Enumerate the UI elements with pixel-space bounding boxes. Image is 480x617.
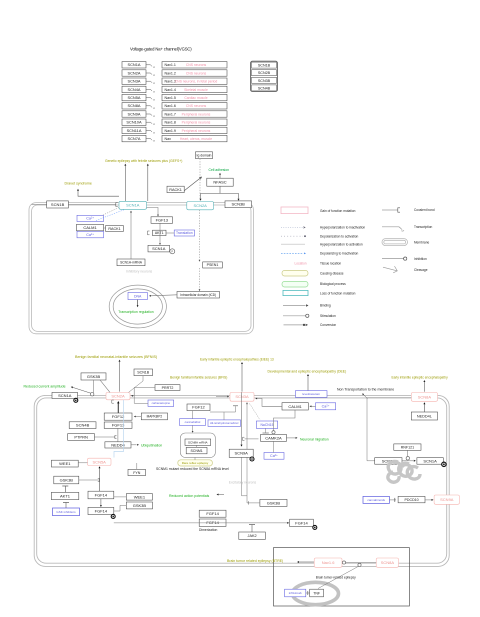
wire GSK3Bd left junction bbox=[258, 502, 260, 504]
svg-text:SCN5A: SCN5A bbox=[93, 459, 107, 464]
svg-text:Nav1.4: Nav1.4 bbox=[165, 88, 176, 92]
svg-text:Intracellular domain (ICD): Intracellular domain (ICD) bbox=[180, 293, 216, 297]
wire arrow SCN2A up to BFNIS bbox=[119, 360, 121, 392]
wire SCN8A-line left loop down to SCN8A protein bbox=[367, 398, 411, 461]
wire Nav1.6 arrow to BTRE label bbox=[297, 561, 314, 563]
wire WEE1 to SCN5A bbox=[78, 462, 87, 464]
VGSC table row SCN2A alpha-subunit box bbox=[122, 70, 146, 76]
svg-text:Heart, uterus, muscle: Heart, uterus, muscle bbox=[180, 137, 212, 141]
svg-text:SCN7A: SCN7A bbox=[128, 136, 141, 141]
box SCN8A (protein, right) bbox=[375, 458, 402, 465]
conversion dot right of FGF14e bbox=[313, 525, 317, 529]
box cannabidiol (drug) bbox=[180, 419, 206, 426]
svg-text:SCN3A: SCN3A bbox=[128, 79, 141, 84]
svg-text:SCN1B: SCN1B bbox=[258, 64, 271, 68]
label Reduced current amplitude bbox=[24, 385, 66, 389]
svg-text:Nav1.6: Nav1.6 bbox=[165, 104, 176, 108]
box cannabinoids (drug) bbox=[363, 496, 389, 503]
wire SCN1B covalent bond to SCN1A bbox=[68, 203, 117, 207]
svg-text:SCN1A: SCN1A bbox=[152, 246, 166, 251]
svg-text:Depolarization to activation: Depolarization to activation bbox=[320, 234, 358, 238]
svg-text:SCN9A: SCN9A bbox=[128, 112, 141, 117]
box GSK3B (d) bbox=[260, 499, 287, 506]
container SCN8A mRNA rounded box bbox=[180, 433, 215, 457]
svg-text:SCN8A: SCN8A bbox=[418, 394, 432, 399]
legend cleavage bbox=[383, 266, 428, 273]
phosphorylation circle P on SCN1A bbox=[170, 249, 175, 254]
svg-text:TNF: TNF bbox=[313, 591, 320, 595]
svg-text:SCN2B: SCN2B bbox=[258, 71, 271, 75]
VGSC table row Nav1.9 description box bbox=[162, 127, 227, 133]
tumor cell ellipse bbox=[293, 582, 339, 604]
wire MAPK8IP2 to FGF12 arrow bbox=[134, 416, 142, 418]
conversion dot at SCN9A corner bbox=[250, 457, 254, 461]
box CALM1 (bottom) bbox=[282, 403, 308, 410]
wire RNF121 down with stimulation circle bbox=[406, 450, 409, 460]
box SCN1A-mRNA bbox=[117, 259, 145, 266]
box SCN1A (middle membrane, loss of function) bbox=[119, 201, 147, 209]
svg-text:SCN2A: SCN2A bbox=[194, 203, 208, 208]
wire PDCD10 arrow to SCN9A bbox=[425, 499, 434, 501]
wire vertical line SCN3A down to SCN9A with arrow bbox=[241, 392, 248, 496]
svg-text:FGF14: FGF14 bbox=[95, 508, 108, 513]
svg-text:SCN2A: SCN2A bbox=[128, 71, 141, 76]
svg-text:GSK3B: GSK3B bbox=[60, 477, 74, 482]
svg-text:FGF14: FGF14 bbox=[295, 520, 308, 525]
wire SCN1A right-bottom elbow to FGF13 bbox=[147, 208, 159, 217]
svg-text:SCN11A: SCN11A bbox=[127, 128, 142, 133]
svg-text:SCN1A: SCN1A bbox=[126, 203, 140, 208]
wire SCN5A down to FGF14a with up arrow bbox=[99, 466, 101, 491]
wire NEDD4 to Ubiquitination arrow bbox=[131, 444, 139, 446]
box FGF13 (left) bbox=[104, 422, 132, 428]
svg-text:Excitatory neurons: Excitatory neurons bbox=[229, 480, 257, 484]
svg-text:levetiracetam: levetiracetam bbox=[302, 392, 320, 396]
svg-text:Ca²⁺: Ca²⁺ bbox=[270, 454, 278, 458]
middle neuron membrane (double rounded rect) bbox=[29, 203, 253, 334]
svg-text:FGF12: FGF12 bbox=[112, 414, 125, 419]
wire FGF13 down to NEDD4 bbox=[117, 428, 119, 441]
box Rare reflex epilepsy (causing disease) bbox=[178, 460, 213, 466]
svg-text:FGF13: FGF13 bbox=[112, 423, 125, 428]
wire SCN1A-mRNA up to SCN1A (translation) bbox=[130, 211, 132, 259]
svg-text:FGF12: FGF12 bbox=[192, 405, 205, 410]
box DNA bbox=[128, 292, 147, 299]
svg-text:CALM1: CALM1 bbox=[288, 404, 302, 409]
wire FYN up bbox=[136, 463, 138, 469]
svg-text:Membrane: Membrane bbox=[414, 240, 429, 244]
svg-text:SCN9A: SCN9A bbox=[440, 497, 454, 502]
box NaCN15 (chemical) bbox=[256, 421, 277, 428]
box AKT1 (lower left) bbox=[51, 492, 79, 499]
box FGF14 (c) bbox=[199, 510, 226, 517]
svg-text:GSK inhibitors: GSK inhibitors bbox=[56, 510, 76, 514]
legend biological process bbox=[282, 281, 346, 287]
VGSC table row SCN3A alpha-subunit box bbox=[122, 78, 146, 84]
svg-text:Ubiquitination: Ubiquitination bbox=[141, 443, 162, 447]
wire FGF12 thick arrow up to SCN2A bbox=[112, 400, 120, 413]
wire carbamazepine to SCN2A elbow bbox=[134, 396, 148, 404]
label Brain tumor-related epilepsy (inner) bbox=[316, 576, 356, 580]
wire SCN11A to Nav1.9 bbox=[146, 130, 155, 134]
svg-text:SCNM1 mutant reduced the SCN8A: SCNM1 mutant reduced the SCN8A mRNA leve… bbox=[156, 467, 229, 471]
wire ICD to DNA arrow bbox=[149, 295, 177, 297]
wire FGF14 down chain arrow bbox=[100, 499, 102, 507]
svg-text:Tyr: Tyr bbox=[401, 229, 404, 232]
wire NFASC split to SCN2A and SCN3B bbox=[200, 186, 240, 201]
svg-text:SCN1B: SCN1B bbox=[51, 202, 65, 207]
svg-text:SCN3B: SCN3B bbox=[258, 79, 271, 83]
wire SCN5A to Nav1.5 bbox=[146, 98, 155, 102]
legend causing disease bbox=[282, 270, 344, 276]
legend inhibition bbox=[382, 257, 427, 261]
VGSC table row SCN10A alpha-subunit box bbox=[122, 119, 146, 125]
box CAMK2A bbox=[261, 434, 287, 441]
svg-text:Ig domain: Ig domain bbox=[197, 153, 212, 157]
svg-text:Cell adhesion: Cell adhesion bbox=[209, 168, 230, 172]
legend depolarizing to inactivation bbox=[281, 252, 358, 256]
VGSC table row Nav1.3 description box bbox=[162, 78, 227, 84]
svg-text:Skeletal muscle: Skeletal muscle bbox=[184, 88, 208, 92]
svg-text:CNS neurons: CNS neurons bbox=[186, 104, 207, 108]
svg-text:Conversion: Conversion bbox=[320, 323, 336, 327]
svg-text:MAPK8IP2: MAPK8IP2 bbox=[147, 415, 163, 419]
box TNF bbox=[310, 589, 324, 597]
VGSC table row SCN11A alpha-subunit box bbox=[122, 127, 146, 133]
wire FGF12 T-bar into SCN3A bottom bbox=[210, 406, 238, 412]
wire Ca2+ to CALM1 arrow bbox=[310, 405, 316, 407]
wire arrow up to DEE bbox=[307, 374, 309, 395]
svg-text:Non Transportation to the memb: Non Transportation to the membrane bbox=[337, 387, 394, 391]
wire NaCN15 inhibition T-bar to CAMK2A bbox=[263, 428, 269, 433]
svg-text:Nax: Nax bbox=[165, 137, 172, 141]
wire cannabidiol down to SCN8A mRNA container bbox=[192, 425, 194, 432]
svg-text:SCN4A: SCN4A bbox=[128, 87, 141, 92]
svg-text:FGF14: FGF14 bbox=[206, 520, 219, 525]
box SCN8A mRNA bbox=[185, 439, 211, 445]
svg-text:Nav1.9: Nav1.9 bbox=[165, 129, 176, 133]
box tetrahydrocannabinol (drug) bbox=[208, 420, 241, 427]
wire SCN3A to Nav1.3 bbox=[146, 81, 155, 85]
box carbamazepine (drug) bbox=[148, 400, 174, 406]
box SCN1B (bottom section) bbox=[134, 369, 153, 376]
box Ca2+ (below CAMK2A) bbox=[264, 453, 284, 460]
box WEE1 (right) bbox=[126, 494, 152, 500]
wire dashed gray SCN1A to Ca2+ bbox=[102, 208, 119, 216]
wire GSK3Bc to FGF14b bbox=[114, 505, 127, 511]
wire dashed blue SCN1A to Ca2+/CALM1 bbox=[96, 210, 124, 221]
VGSC table row Nax description box bbox=[162, 135, 227, 141]
label Dimerization bbox=[199, 528, 217, 532]
svg-text:Nav1.1: Nav1.1 bbox=[165, 63, 176, 67]
svg-text:NaCN15: NaCN15 bbox=[260, 423, 273, 427]
box SCN9A (bottom right, gain of function) bbox=[434, 495, 459, 504]
svg-text:WEE1: WEE1 bbox=[134, 494, 146, 499]
label Cell adhesion bbox=[209, 168, 230, 172]
box Translation (process) bbox=[174, 230, 194, 236]
wire WEE1b to FGF14a bbox=[114, 496, 127, 498]
svg-text:DNA: DNA bbox=[134, 294, 142, 298]
box JAK2 bbox=[239, 532, 265, 539]
svg-text:Early infantile epileptic ence: Early infantile epileptic encephalopathy bbox=[392, 375, 449, 379]
svg-text:Genetic epilepsy with febrile: Genetic epilepsy with febrile seizures p… bbox=[105, 159, 182, 163]
container BTRE box bbox=[274, 548, 410, 606]
conversion dot on SCN1A output bbox=[74, 398, 78, 402]
legend gain of function mutation bbox=[281, 207, 356, 214]
svg-text:Inhibitory neurons: Inhibitory neurons bbox=[126, 269, 153, 273]
box RACK1 (extracellular) bbox=[167, 186, 184, 192]
VGSC table row SCN4A alpha-subunit box bbox=[122, 86, 146, 92]
box PRRT2 bbox=[155, 385, 180, 391]
box FGF13 (middle cell) bbox=[151, 217, 173, 224]
svg-text:FGF13: FGF13 bbox=[156, 218, 169, 223]
box Ca2+ (right of CALM1) bbox=[316, 403, 336, 410]
svg-text:Benign familial infantile seiz: Benign familial infantile seizures (BFIS… bbox=[170, 375, 227, 379]
svg-text:WEE1: WEE1 bbox=[59, 461, 71, 466]
box Ca2+ (lower) bbox=[77, 231, 104, 238]
box FGF12 (under SCN3A) bbox=[187, 404, 210, 411]
wire SCN2A to Nav1.2 bbox=[146, 73, 155, 77]
svg-text:Ca²⁺: Ca²⁺ bbox=[322, 405, 330, 409]
svg-text:PRRT2: PRRT2 bbox=[162, 386, 174, 390]
box FGF14 (e) bbox=[290, 519, 314, 526]
svg-text:Cleavage: Cleavage bbox=[414, 268, 428, 272]
box SCN2A (bottom membrane, gain of function) bbox=[106, 392, 130, 399]
box SCN2A (middle membrane, loss of function) bbox=[187, 202, 214, 210]
svg-text:PTPRN: PTPRN bbox=[74, 434, 88, 439]
VGSC table row SCN8A alpha-subunit box bbox=[122, 103, 146, 109]
svg-text:SCN8A mRNA: SCN8A mRNA bbox=[188, 440, 208, 444]
box FYN bbox=[128, 469, 146, 475]
legend hyperpolarization to inactivation bbox=[281, 226, 365, 230]
svg-text:RACK1: RACK1 bbox=[108, 227, 120, 231]
box Ca2+ (upper) bbox=[77, 215, 104, 221]
VGSC table row Nav1.4 description box bbox=[162, 86, 227, 92]
svg-text:JAK2: JAK2 bbox=[248, 534, 257, 538]
svg-text:SCN9A: SCN9A bbox=[235, 451, 249, 456]
svg-text:AKT1: AKT1 bbox=[60, 493, 71, 498]
svg-text:SCN3B: SCN3B bbox=[232, 202, 246, 207]
svg-text:Transcription: Transcription bbox=[414, 225, 433, 229]
svg-text:GSK3B: GSK3B bbox=[267, 500, 281, 505]
label Reduced action potentials bbox=[169, 494, 210, 498]
nucleus (double ellipse) bbox=[109, 285, 166, 328]
svg-text:Tissue location: Tissue location bbox=[320, 262, 341, 266]
svg-text:Covalent bond: Covalent bond bbox=[414, 208, 435, 212]
wire SCN7A to Nax bbox=[146, 139, 155, 143]
svg-text:RNF121: RNF121 bbox=[401, 445, 414, 449]
wire GSK3B right to SCN5A-FGF14 line bbox=[79, 478, 100, 481]
wire TNF diagonal to membrane circle bbox=[318, 566, 359, 588]
box SCN8A (BTRE, gain of function) bbox=[376, 558, 398, 567]
legend transcription bbox=[382, 225, 433, 232]
legend loss of function mutation bbox=[283, 290, 356, 295]
legend tissue location bbox=[295, 262, 342, 266]
wire PTPRN to ubiquitination line bbox=[94, 436, 116, 439]
wire SCNM1 to rare reflex epilepsy bbox=[194, 457, 196, 459]
svg-text:PDCD10: PDCD10 bbox=[405, 498, 419, 502]
label Transcription regulation bbox=[118, 310, 153, 314]
svg-text:SCN1A: SCN1A bbox=[58, 393, 72, 398]
wire stimulation to reduced current amplitude bbox=[71, 387, 92, 394]
wire NFASC up-arrow to Cell adhesion bbox=[219, 173, 221, 178]
label Dravet syndrome bbox=[65, 181, 92, 185]
box SCN1A (protein, far right) bbox=[417, 458, 443, 465]
svg-text:Reduced action potentials: Reduced action potentials bbox=[169, 494, 210, 498]
wire RACK1 cleavage arrow to Ig-domain line bbox=[185, 177, 202, 190]
svg-text:SCN4B: SCN4B bbox=[76, 423, 90, 428]
svg-text:Nav1.8: Nav1.8 bbox=[165, 121, 176, 125]
label Early infantile epileptic encephalopathy bbox=[392, 375, 449, 379]
wire arrow SCN3A up to EIEE13 bbox=[241, 362, 243, 392]
conversion dot at SCN1A right bbox=[442, 462, 446, 466]
wire SCN1A to Nav1.1 bbox=[146, 65, 155, 69]
svg-text:Brain tumor-related epilepsy: Brain tumor-related epilepsy bbox=[316, 576, 356, 580]
svg-text:GSK3B: GSK3B bbox=[133, 503, 147, 508]
wire dashed Ig domain down through SCN2A to PSEN1 and ICD bbox=[199, 159, 201, 292]
box Nav1.6 (gain of function) bbox=[314, 558, 342, 567]
svg-text:Developmental and epileptic en: Developmental and epileptic encephalopat… bbox=[268, 369, 347, 373]
wire binding junction vertical line to CAMK2A bbox=[243, 437, 259, 440]
svg-text:CALM1: CALM1 bbox=[83, 225, 97, 230]
VGSC table row Nav1.6 description box bbox=[162, 103, 227, 109]
box FGF14 (b) bbox=[88, 507, 114, 514]
box NEDD4 bbox=[105, 442, 131, 448]
svg-text:Brain tumor related epilepsy (: Brain tumor related epilepsy (BTRE) bbox=[227, 559, 283, 563]
box CALM1 (middle) bbox=[77, 224, 104, 231]
legend conversion arrow bbox=[284, 323, 337, 327]
svg-text:Transcription regulation: Transcription regulation bbox=[118, 310, 153, 314]
title Voltage-gated Na+ channel (VGSC) bbox=[130, 47, 192, 52]
wire membrane diag arrow to Non-transportation label bbox=[362, 393, 367, 398]
svg-text:SCN10A: SCN10A bbox=[126, 120, 142, 125]
box GSK inhibitors (drug) bbox=[53, 508, 80, 516]
box PDCD10 bbox=[398, 496, 425, 502]
legend binding arrow bbox=[283, 304, 331, 308]
svg-text:SCNM1: SCNM1 bbox=[190, 449, 202, 453]
box infliximab (drug) bbox=[285, 589, 306, 597]
svg-text:Dimerization: Dimerization bbox=[199, 528, 217, 532]
svg-text:CNS neurons: CNS neurons bbox=[186, 63, 207, 67]
wire SCN8A-mRNA to SCNM1 bbox=[196, 445, 198, 447]
svg-text:Nav1.7: Nav1.7 bbox=[165, 112, 176, 116]
svg-text:Rare reflex epilepsy: Rare reflex epilepsy bbox=[182, 461, 209, 465]
box SCN1A (bottom membrane) bbox=[52, 392, 78, 398]
wire dashed SCN3A to NaCN15 bbox=[250, 404, 261, 420]
svg-text:Biological process: Biological process bbox=[320, 282, 346, 286]
legend hyperpolarization to activation bbox=[281, 242, 363, 246]
svg-text:Voltage-gated Na+ channel(VGSC: Voltage-gated Na+ channel(VGSC) bbox=[130, 47, 192, 52]
stimulation circle on membrane line bbox=[91, 393, 94, 396]
box RACK1 (intracellular) bbox=[106, 226, 124, 232]
svg-text:FYN: FYN bbox=[133, 471, 141, 475]
VGSC table row Nav1.2 description box bbox=[162, 70, 227, 76]
svg-text:SCN1B: SCN1B bbox=[137, 371, 150, 375]
wire arrow SCN1A up to GEFS+ (left) bbox=[124, 164, 126, 201]
box MAPK8IP2 bbox=[141, 413, 167, 420]
svg-text:CNS neurons: CNS neurons bbox=[186, 71, 207, 75]
label BFIS bbox=[170, 375, 227, 379]
wire vertical line up-arrow into SCN3A and down to GSK3B bbox=[246, 402, 257, 504]
legend depolarization to activation bbox=[281, 234, 358, 238]
svg-text:Depolarizing to Inactivation: Depolarizing to Inactivation bbox=[320, 252, 358, 256]
VGSC table row SCN5A alpha-subunit box bbox=[122, 94, 146, 100]
svg-text:NFASC: NFASC bbox=[213, 180, 226, 185]
wire arrow SCN8A up to EIEE bbox=[423, 380, 425, 392]
wire arrow into SCN3A left edge bbox=[216, 396, 229, 398]
label BFNIS bbox=[75, 355, 157, 359]
box AKT1 (middle cell) bbox=[153, 230, 167, 235]
svg-text:Hyperpolarization to inactivat: Hyperpolarization to inactivation bbox=[320, 226, 365, 230]
box levetiracetam (drug on membrane) bbox=[296, 391, 328, 398]
svg-text:SCN1A-mRNA: SCN1A-mRNA bbox=[120, 261, 143, 265]
svg-text:SCN8A: SCN8A bbox=[128, 103, 141, 108]
label Ubiquitination bbox=[141, 443, 162, 447]
VGSC table row Nav1.1 description box bbox=[162, 62, 227, 68]
wire CAMK2A to Ca2+ below bbox=[273, 441, 275, 452]
svg-text:Benign familial neonatal-infan: Benign familial neonatal-infantile seizu… bbox=[75, 355, 157, 359]
wire DNA down to transcription regulation bbox=[137, 300, 139, 308]
label Excitatory neurons bbox=[229, 480, 257, 484]
svg-text:Cardiac muscle: Cardiac muscle bbox=[184, 96, 207, 100]
wire AKT1 to Translation bbox=[148, 231, 175, 235]
box SCN3A (bottom membrane, gain of function) bbox=[230, 392, 254, 401]
label Genetic epilepsy with febrile seizures plus (GEFS+) bbox=[105, 159, 182, 163]
wire SCN1B diagonal to SCN2A bbox=[129, 376, 144, 393]
box GSK3B (right) bbox=[126, 502, 152, 509]
wire CALM1 to SCN3A elbow bbox=[255, 398, 282, 407]
label EIEE13 bbox=[200, 357, 274, 361]
label DEE bbox=[268, 369, 347, 373]
wire SCN8A to Nav1.6 with stimulation circles bbox=[342, 561, 376, 567]
svg-text:SCN2A: SCN2A bbox=[111, 394, 125, 399]
svg-text:GSK3B: GSK3B bbox=[87, 374, 101, 379]
box SCN8A (bottom right membrane, gain of function) bbox=[411, 393, 437, 402]
box GSK3B (lower left) bbox=[54, 476, 79, 484]
svg-text:AKT1: AKT1 bbox=[155, 231, 164, 235]
wire GSK inhibitors up to AKT1 bbox=[63, 503, 69, 509]
box FGF14 (a) bbox=[88, 491, 114, 499]
VGSC table row Nav1.8 description box bbox=[162, 119, 227, 125]
VGSC table row SCN9A alpha-subunit box bbox=[122, 111, 146, 117]
svg-text:SCN3A: SCN3A bbox=[235, 394, 249, 399]
svg-text:Nav1.6: Nav1.6 bbox=[322, 560, 335, 565]
box PSEN1 bbox=[203, 262, 223, 268]
wire cannabidiol up to FGF12a bbox=[192, 411, 194, 419]
wire PRRT2 elbow to SCN2A bbox=[131, 388, 155, 397]
svg-text:Dravet syndrome: Dravet syndrome bbox=[65, 181, 92, 185]
label Non Transportation to the membrane bbox=[337, 387, 394, 391]
svg-text:Reduced current amplitude: Reduced current amplitude bbox=[24, 385, 66, 389]
svg-text:Nav1.2: Nav1.2 bbox=[165, 71, 176, 75]
svg-text:CNS neurons, in fetal period: CNS neurons, in fetal period bbox=[175, 80, 218, 84]
svg-text:FGF14: FGF14 bbox=[95, 492, 108, 497]
wire SCN10A to Nav1.8 bbox=[146, 122, 155, 126]
svg-text:Hyperpolarization to activatio: Hyperpolarization to activation bbox=[320, 242, 363, 246]
box Intracellular domain (ICD) bbox=[177, 292, 220, 299]
wire SCN4A to Nav1.4 bbox=[146, 89, 155, 93]
box FGF12 (left) bbox=[104, 413, 132, 420]
svg-text:Causing disease: Causing disease bbox=[320, 271, 344, 275]
wire FGF14b long arrow to FGF14e bbox=[114, 522, 289, 524]
svg-text:FGF14: FGF14 bbox=[206, 511, 219, 516]
bottom neuron membrane (double rounded rect) bbox=[34, 395, 449, 566]
VGSC table row Nav1.7 description box bbox=[162, 111, 227, 117]
wire CAMK2A to neuronal migration arrow bbox=[286, 437, 297, 439]
wire SCN1A to Dravet syndrome arrow bbox=[77, 189, 119, 196]
box PTPRN bbox=[68, 434, 95, 441]
svg-text:Peripheral neurons: Peripheral neurons bbox=[182, 121, 211, 125]
